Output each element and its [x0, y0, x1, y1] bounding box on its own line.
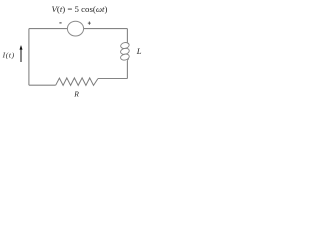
- wire: right vertical upper segment above inductor: [126, 29, 128, 43]
- minus sign: [59, 22, 61, 24]
- wire: left vertical: [28, 29, 30, 86]
- resistor R: [56, 78, 98, 86]
- wire: bottom-left horizontal to resistor: [29, 84, 56, 86]
- inductor L coil loops: [120, 42, 130, 61]
- svg-text:I(t): I(t): [2, 51, 15, 60]
- svg-text:L: L: [136, 46, 142, 56]
- current arrow I(t): [20, 49, 22, 62]
- wire: top-left horizontal from corner to source: [29, 28, 68, 30]
- plus sign: [88, 22, 91, 25]
- svg-text:V(t) = 5 cos(ωt): V(t) = 5 cos(ωt): [52, 4, 108, 14]
- voltage source circle: [67, 21, 83, 36]
- wire: right vertical lower segment below inductor: [126, 61, 128, 79]
- wire: top-right horizontal from source to corner: [84, 28, 128, 30]
- wire: bottom-right horizontal from resistor to right corner: [98, 78, 127, 80]
- svg-text:R: R: [73, 90, 79, 99]
